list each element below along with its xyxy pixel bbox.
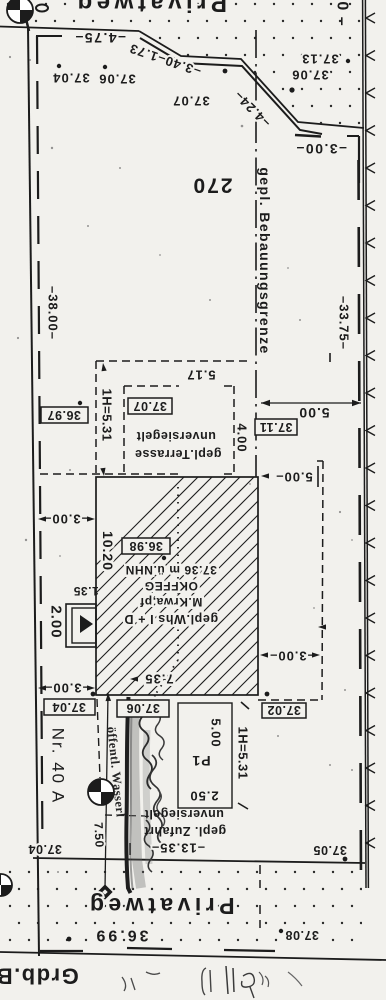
- measure dot for 36.99: [67, 937, 72, 942]
- svg-text:1.35: 1.35: [73, 584, 98, 598]
- stipple dots of upper Privatweg road surface: [7, 3, 370, 124]
- arrowhead top of 7.50 line: [106, 693, 112, 701]
- survey point symbol at driveway: [88, 779, 114, 805]
- arrowhead right of right 3.00: [312, 652, 320, 657]
- svg-text:öffentl. Wasserl: öffentl. Wasserl: [104, 726, 127, 818]
- svg-text:–4.75–: –4.75–: [74, 30, 126, 46]
- svg-text:P1: P1: [191, 753, 210, 769]
- svg-text:gepl. Zufahrt: gepl. Zufahrt: [144, 824, 227, 838]
- entrance arrow triangle: [80, 615, 93, 633]
- svg-text:Privatweg: Privatweg: [73, 0, 227, 17]
- svg-text:–3.00–: –3.00–: [269, 649, 315, 664]
- svg-text:Nr. 40 A: Nr. 40 A: [49, 728, 68, 804]
- wire upper road edge (north boundary outer line): [0, 27, 139, 32]
- wire small dashed connector at y815: [105, 815, 145, 816]
- handwriting squiggles along pipe: [139, 703, 151, 789]
- pencil smudge band: [134, 700, 141, 888]
- handwriting scribble small left: [122, 972, 160, 991]
- wire short dashes above lower road edge: [40, 950, 83, 952]
- wire right inner boundary dash segments: [359, 160, 362, 886]
- entrance symbol inner box: [72, 608, 96, 643]
- wire dashed parcel tick across lower road: [259, 865, 261, 888]
- svg-text:37.05: 37.05: [313, 843, 347, 857]
- hatch lines of building: [0, 477, 386, 695]
- svg-text:36.99: 36.99: [93, 927, 148, 944]
- svg-text:37.06: 37.06: [291, 68, 329, 83]
- dotted drain line (vertical then diagonal): [155, 660, 178, 695]
- arrowhead of 7.35 dimension: [130, 676, 138, 681]
- measure dot for 37.08: [279, 929, 283, 933]
- wire bottom parcel boundary / road north edge: [33, 858, 365, 863]
- svg-text:37.36 m ü.NHN: 37.36 m ü.NHN: [125, 563, 217, 577]
- wire gepl. Bebauungsgrenze dash-dot line: [255, 30, 257, 477]
- wire lower road south edge: [0, 952, 386, 960]
- parking space P1 outline: [178, 703, 232, 808]
- svg-text:5.00: 5.00: [209, 718, 224, 747]
- hand drawn pen line (water pipe): [126, 697, 130, 893]
- dot at building SE corner: [265, 692, 270, 697]
- survey point symbol bottom left edge: [0, 874, 12, 896]
- svg-text:–13.35–: –13.35–: [151, 841, 205, 856]
- svg-text:37.04: 37.04: [52, 700, 86, 714]
- arrowhead on envelope right edge: [318, 624, 326, 629]
- entrance symbol outer box: [66, 604, 96, 647]
- measure dot for 36.98: [162, 556, 166, 560]
- svg-text:–3.00–: –3.00–: [295, 141, 347, 157]
- wire tail of top survey symbol: [26, 19, 29, 31]
- wire tick at envelope top right corner: [329, 353, 331, 362]
- svg-text:unversiegelt: unversiegelt: [136, 429, 216, 443]
- svg-text:–33.75–: –33.75–: [337, 296, 352, 350]
- measure dot for 37.06: [103, 65, 107, 69]
- box 37.11: [255, 419, 297, 435]
- svg-text:5.00–: 5.00–: [275, 470, 313, 485]
- measure dot for 37.06 right: [289, 87, 294, 92]
- diamond end marker of 7.50 line: [97, 884, 112, 899]
- arrowhead left of 5.00 dimension: [261, 400, 270, 406]
- wire tick top of lower 1H=5.31: [241, 702, 249, 709]
- svg-text:Privatweg: Privatweg: [85, 893, 234, 919]
- wire left inner boundary dashes: [37, 36, 43, 853]
- wire right inner dash first segment: [358, 136, 360, 183]
- svg-text:7.50: 7.50: [91, 822, 106, 848]
- arrowhead left of right 3.00: [260, 652, 268, 657]
- svg-text:37.02: 37.02: [267, 703, 301, 717]
- wire building envelope dashed top edge: [96, 360, 251, 362]
- svg-text:–38.00–: –38.00–: [46, 286, 61, 340]
- svg-text:4.00: 4.00: [235, 423, 250, 452]
- wire tick left of -13.35-: [129, 843, 131, 855]
- svg-text:M.Krwa,pf: M.Krwa,pf: [139, 595, 202, 609]
- svg-text:–4.24–: –4.24–: [231, 88, 274, 131]
- wire right boundary vertical line (inner): [365, 0, 368, 888]
- fence chevron marks along right boundary: [366, 13, 375, 23]
- arrowhead right of upper left 3.00: [87, 516, 95, 521]
- measure dot for 37.04: [57, 64, 61, 68]
- box 36.97: [41, 407, 88, 423]
- svg-text:–3.40–1.73: –3.40–1.73: [127, 41, 203, 80]
- wire terrace dashed right edge: [233, 386, 235, 474]
- stipple dots of lower Privatweg road surface: [9, 871, 362, 941]
- svg-text:gepl.Terrasse: gepl.Terrasse: [135, 447, 222, 461]
- wire building envelope dashed bottom edge: [258, 699, 322, 701]
- svg-text:37.11: 37.11: [259, 420, 292, 434]
- scan noise specks: [51, 147, 53, 149]
- svg-text:2.50: 2.50: [189, 789, 218, 804]
- wire 5.00 dimension line: [261, 402, 361, 404]
- wire terrace dashed left edge: [123, 386, 125, 474]
- svg-text:2.00: 2.00: [48, 605, 65, 638]
- svg-text:1H=5.31: 1H=5.31: [236, 726, 251, 779]
- wire terrace dashed top edge: [124, 385, 179, 387]
- wire right boundary vertical line (outer): [363, 0, 366, 888]
- arrowhead right of 5.00 dimension: [352, 400, 361, 406]
- svg-text:37.04: 37.04: [52, 71, 90, 86]
- svg-text:5.17: 5.17: [186, 368, 215, 383]
- svg-text:37.06: 37.06: [98, 72, 136, 87]
- arrowhead right of lower left 3.00: [87, 685, 95, 690]
- survey point symbol top left: [7, 0, 33, 23]
- wire dashed line boundary to terrace bottom: [40, 473, 178, 475]
- wire inner boundary start segment: [36, 35, 62, 37]
- wire diagonal road corner outer line: [139, 31, 364, 128]
- box 37.04 lower: [44, 699, 95, 715]
- measure dot for 37.13: [346, 59, 350, 63]
- arrowhead top of 1H=5.31 dimension: [102, 363, 107, 371]
- arrowhead left of lower left 3.00: [38, 685, 46, 690]
- wire tick of lower right 5.00: [317, 466, 319, 487]
- wire inner boundary parallel line: [140, 38, 322, 134]
- wire bracket top of right inner dash: [347, 135, 359, 137]
- wire dashed line building corner to survey point: [97, 699, 100, 778]
- handwriting scribble bottom right: [202, 968, 211, 995]
- svg-text:36.97: 36.97: [47, 408, 81, 422]
- svg-text:–3.00–: –3.00–: [44, 681, 90, 696]
- svg-text:Grdb.B: Grdb.B: [0, 964, 79, 989]
- svg-text:10.20: 10.20: [100, 531, 116, 571]
- dot at building SW corner: [91, 692, 96, 697]
- svg-text:36.98: 36.98: [129, 539, 163, 553]
- box 37.02: [262, 703, 306, 718]
- svg-text:270: 270: [191, 174, 232, 197]
- svg-text:37.08: 37.08: [285, 928, 319, 942]
- svg-text:gepl. Bebauungsgrenze: gepl. Bebauungsgrenze: [257, 167, 273, 354]
- svg-text:OKFFEG: OKFFEG: [144, 579, 198, 593]
- measure dot for 36.97: [78, 401, 82, 405]
- wire tick bottom of lower 1H=5.31: [238, 803, 248, 809]
- wire building envelope dashed right edge: [322, 461, 323, 700]
- box 37.06 lower: [117, 700, 169, 717]
- measure dot near diagonal: [223, 69, 228, 74]
- building gepl. Whs outline: [96, 477, 258, 695]
- svg-text:7.35: 7.35: [144, 672, 173, 687]
- svg-text:0 –: 0 –: [334, 1, 351, 26]
- arrowhead left of upper left 3.00: [38, 516, 46, 521]
- svg-text:37.04: 37.04: [28, 842, 62, 856]
- svg-text:37.07: 37.07: [172, 94, 210, 109]
- arrowhead of lower right 5.00: [261, 473, 269, 478]
- svg-text:unversiegelt: unversiegelt: [144, 807, 224, 821]
- wire heavy inner dash near NE corner: [295, 135, 321, 137]
- svg-text:37.07: 37.07: [133, 399, 167, 413]
- box 36.98: [122, 538, 170, 554]
- svg-text:37.06: 37.06: [126, 701, 160, 715]
- box 37.07 terrace: [128, 398, 172, 414]
- dot on road edge right: [343, 857, 348, 862]
- svg-text:1H=5.31: 1H=5.31: [100, 388, 115, 441]
- wire building envelope dashed left edge: [95, 361, 97, 474]
- svg-text:–3.00–: –3.00–: [43, 512, 89, 527]
- wire 7.50 measure line: [105, 693, 108, 889]
- wire left road edge vertical boundary: [28, 27, 39, 956]
- svg-text:gepl.Whs I + D: gepl.Whs I + D: [124, 612, 218, 626]
- arrowhead bottom of 1H=5.31 dimension: [100, 468, 105, 476]
- wire corner tick of envelope right edge: [317, 460, 323, 462]
- svg-text:37.13: 37.13: [301, 52, 339, 67]
- svg-text:5.00: 5.00: [298, 405, 329, 421]
- small ellipse mark near top survey symbol: [36, 5, 48, 12]
